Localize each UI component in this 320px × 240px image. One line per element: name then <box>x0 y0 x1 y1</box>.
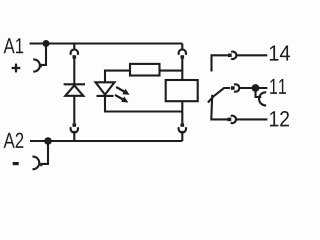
terminal label 11 <box>270 79 286 94</box>
wire LED branch top <box>105 71 130 83</box>
wire LED branch bottom <box>105 95 182 112</box>
LED light arrow 2 <box>115 95 124 100</box>
node A2 junction dot <box>44 137 52 145</box>
LED light arrow 1 <box>116 87 125 92</box>
contact 12 wire and riser <box>211 95 227 120</box>
contact 14 wire and stub <box>212 55 228 71</box>
wire into coil <box>181 59 183 80</box>
terminal label A2 <box>4 133 24 148</box>
plug-socket connector bottom of diode branch <box>73 123 77 127</box>
wire A2 to clamp <box>41 141 48 166</box>
plug-socket connector top of diode branch <box>73 44 75 51</box>
node A1 junction dot <box>43 40 50 47</box>
plug-socket connector bottom right <box>181 123 185 127</box>
polarity label plus <box>12 67 21 69</box>
wire A1 top rail <box>30 42 183 44</box>
wire A1 to clamp <box>41 44 46 68</box>
plug connector on 11 <box>231 86 235 90</box>
wire diode branch lower <box>73 96 75 123</box>
plug connector on 14 <box>228 54 232 58</box>
resistor R1 <box>130 64 160 76</box>
plug connector on 12 <box>228 118 232 122</box>
terminal label 14 <box>270 46 290 61</box>
terminal label A1 <box>4 38 24 53</box>
wire resistor to coil node <box>160 70 183 72</box>
wire diode branch upper <box>73 59 75 85</box>
node dot on 11 <box>252 84 260 92</box>
clamp terminal 11 <box>259 92 266 105</box>
LED cathode bar <box>97 95 114 97</box>
relay coil K1 <box>166 80 198 101</box>
wire 11 to clamp <box>256 88 262 97</box>
LED triangle <box>96 82 115 94</box>
plug-socket connector top right <box>179 49 186 54</box>
clamp terminal A1 <box>33 59 40 71</box>
wire right vertical from top rail <box>181 44 183 51</box>
clamp terminal A2 <box>32 157 39 170</box>
contact 11 movable arm <box>208 88 230 103</box>
wire A2 bottom rail <box>30 140 182 142</box>
wire out of coil <box>181 101 183 123</box>
diode D1 (cathode bar) <box>64 83 85 85</box>
polarity label minus <box>13 162 19 165</box>
diode D1 (triangle) <box>65 85 83 95</box>
terminal label 12 <box>270 111 289 126</box>
